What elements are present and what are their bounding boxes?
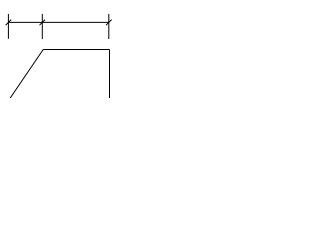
extension line middle <box>41 14 43 39</box>
extension line right <box>108 14 110 39</box>
object sloped edge <box>10 49 43 98</box>
oblique tick left <box>6 20 12 26</box>
object top edge <box>43 48 109 50</box>
extension line left <box>7 14 9 39</box>
object right edge <box>109 49 111 98</box>
oblique tick middle <box>40 20 46 26</box>
oblique tick right <box>106 20 112 26</box>
dimension line <box>8 21 109 23</box>
